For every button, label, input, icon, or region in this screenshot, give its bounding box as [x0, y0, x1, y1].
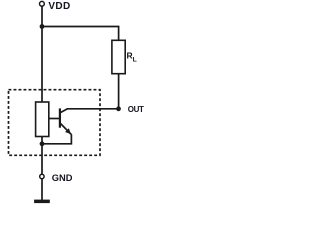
svg-text:OUT: OUT: [128, 105, 144, 114]
wire VDD rail vertical: [41, 6, 43, 102]
terminal GND: [40, 174, 44, 178]
svg-text:VDD: VDD: [48, 1, 70, 12]
terminal VDD: [40, 1, 45, 6]
wire base: [49, 118, 60, 120]
resistor RL: [112, 40, 125, 73]
node junction VDD rail: [40, 24, 45, 29]
svg-text:RL: RL: [127, 51, 137, 64]
wire resistor bottom stub: [41, 137, 43, 144]
node emitter junction: [40, 141, 45, 146]
ground symbol: [34, 200, 50, 204]
svg-text:GND: GND: [52, 173, 73, 183]
wire to GND terminal: [41, 144, 43, 175]
wire GND to ground symbol: [41, 179, 43, 200]
wire emitter down: [42, 134, 71, 143]
wire collector to OUT: [67, 108, 119, 110]
dashed enclosure: [9, 90, 101, 156]
resistor R1 internal: [36, 102, 49, 137]
transistor Q1: [60, 108, 72, 134]
wire RL to OUT node: [118, 74, 120, 109]
wire VDD to RL: [42, 27, 119, 41]
node OUT: [116, 106, 121, 111]
